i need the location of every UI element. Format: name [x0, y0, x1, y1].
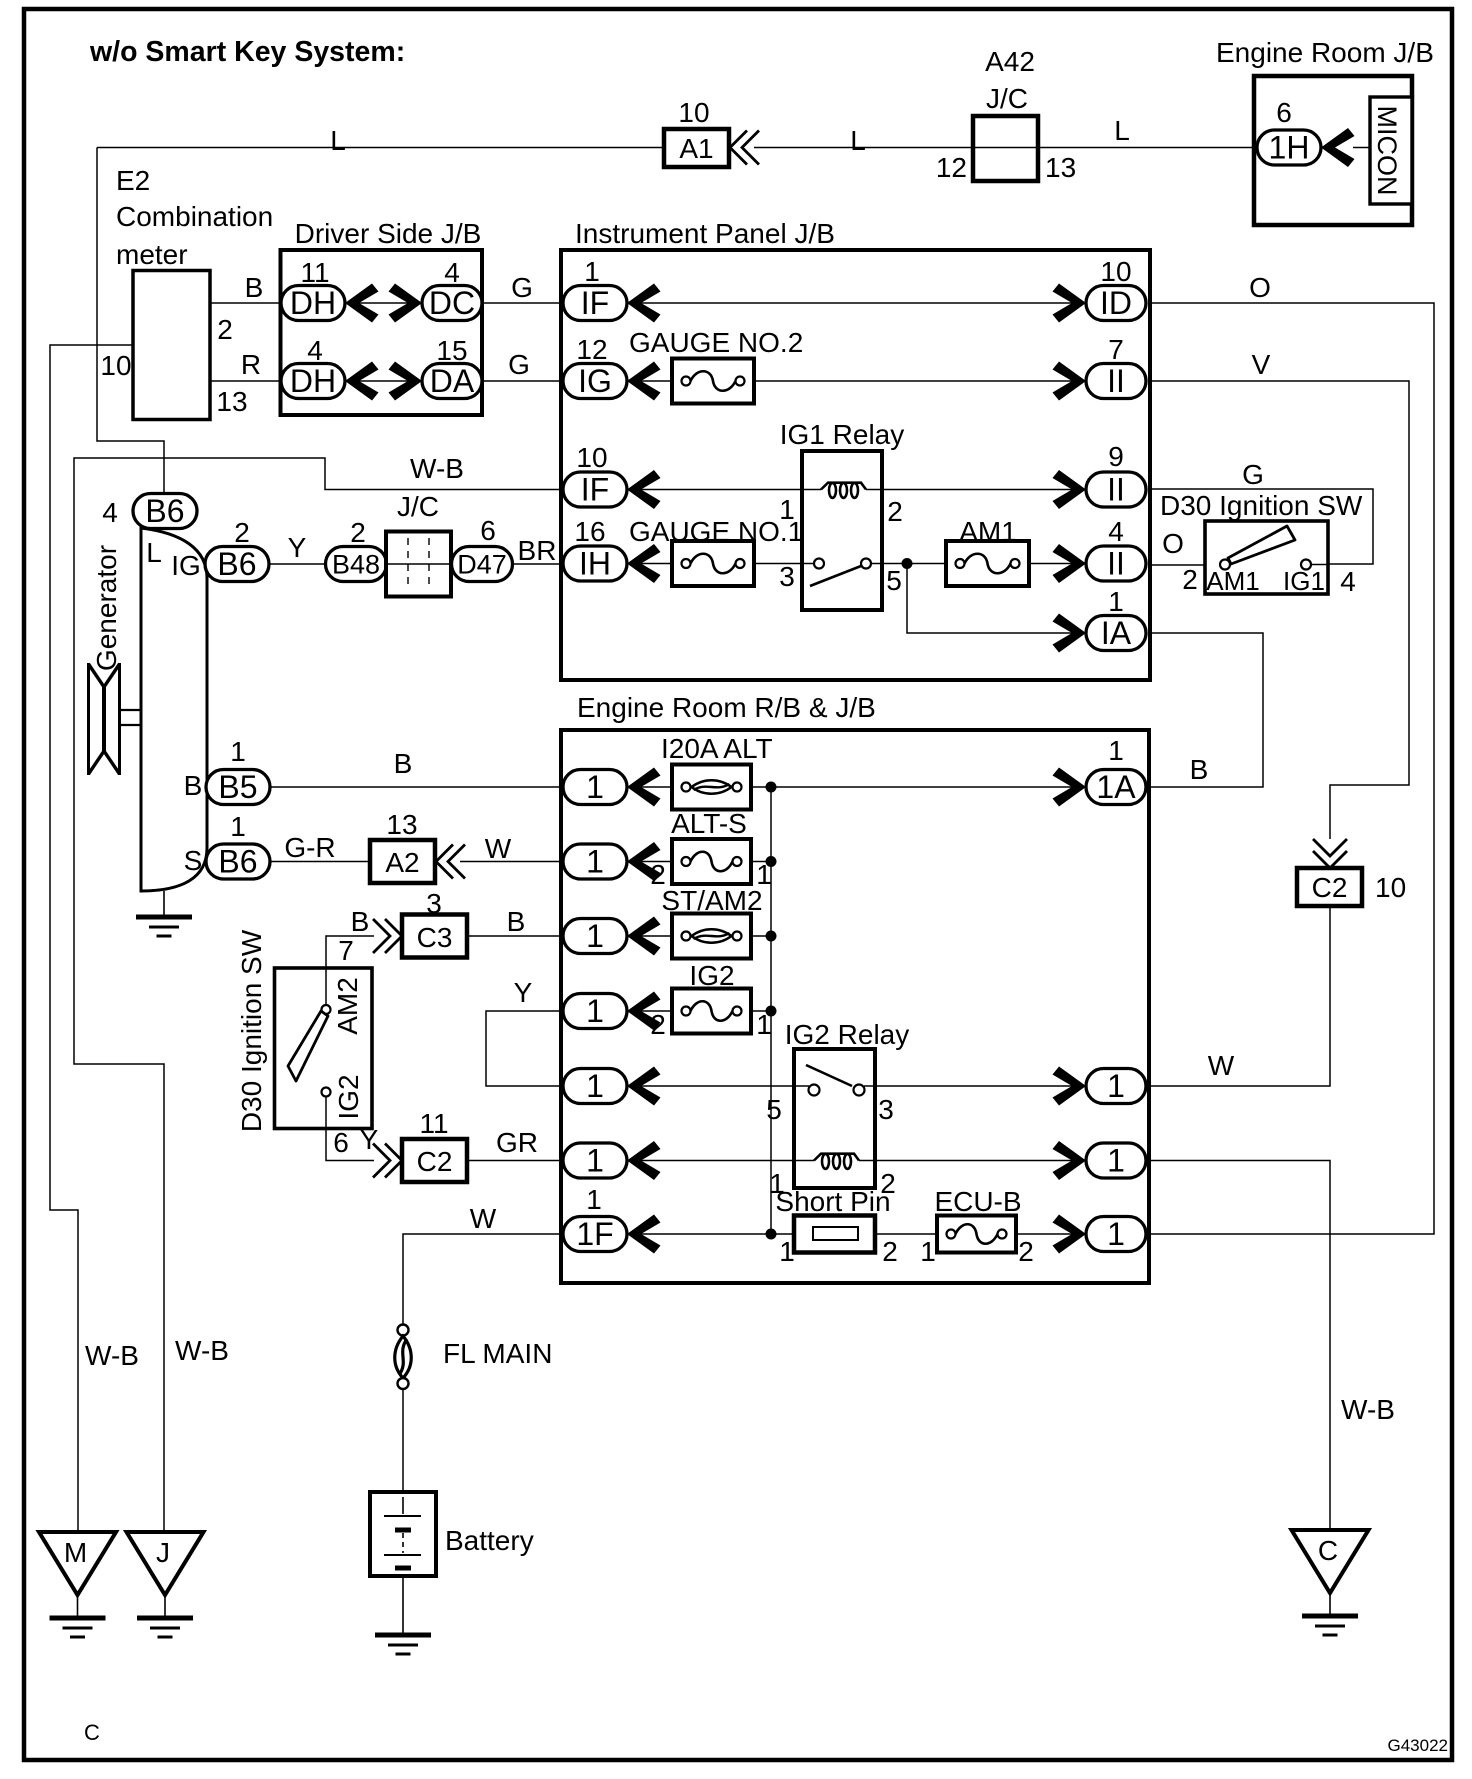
svg-text:3: 3: [426, 888, 442, 919]
svg-text:B: B: [245, 272, 264, 303]
svg-text:A2: A2: [385, 847, 419, 878]
svg-text:1: 1: [1107, 1143, 1125, 1179]
svg-text:R: R: [241, 349, 261, 380]
svg-text:ALT-S: ALT-S: [671, 808, 747, 839]
svg-text:IF: IF: [581, 472, 609, 508]
svg-text:2: 2: [882, 1236, 898, 1267]
svg-text:1: 1: [586, 844, 604, 880]
svg-text:B6: B6: [217, 546, 256, 582]
svg-text:W: W: [485, 833, 512, 864]
svg-text:5: 5: [886, 565, 902, 596]
svg-text:S: S: [184, 845, 203, 876]
svg-text:O: O: [1249, 272, 1271, 303]
svg-text:G43022: G43022: [1388, 1736, 1449, 1755]
svg-text:IA: IA: [1101, 615, 1132, 651]
svg-text:1: 1: [1108, 735, 1124, 766]
svg-text:B: B: [507, 906, 526, 937]
svg-text:1: 1: [779, 494, 795, 525]
svg-text:DH: DH: [290, 285, 336, 321]
svg-text:1: 1: [586, 1184, 602, 1215]
svg-text:L: L: [1114, 115, 1130, 146]
svg-text:B48: B48: [332, 549, 380, 579]
svg-text:MICON: MICON: [1372, 106, 1402, 196]
svg-text:1: 1: [1107, 1216, 1125, 1252]
svg-text:IG1: IG1: [1283, 566, 1325, 596]
svg-text:GAUGE NO.1: GAUGE NO.1: [629, 516, 803, 547]
svg-text:2: 2: [650, 1009, 666, 1040]
svg-text:11: 11: [300, 257, 329, 288]
svg-text:L: L: [146, 537, 162, 568]
svg-text:3: 3: [878, 1094, 894, 1125]
svg-text:2: 2: [350, 517, 366, 548]
svg-text:IG2: IG2: [689, 960, 734, 991]
svg-text:9: 9: [1108, 441, 1124, 472]
svg-text:DC: DC: [429, 285, 475, 321]
svg-text:Driver Side J/B: Driver Side J/B: [295, 218, 482, 249]
svg-text:AM1: AM1: [959, 516, 1017, 547]
svg-text:1: 1: [779, 1236, 795, 1267]
svg-text:Engine Room R/B & J/B: Engine Room R/B & J/B: [577, 692, 876, 723]
svg-text:L: L: [850, 125, 866, 156]
svg-text:Y: Y: [360, 1124, 379, 1155]
svg-text:BR: BR: [518, 535, 557, 566]
svg-text:10: 10: [678, 97, 709, 128]
svg-text:10: 10: [100, 350, 131, 381]
svg-text:IG: IG: [171, 550, 201, 581]
svg-text:1: 1: [586, 1143, 604, 1179]
svg-text:5: 5: [766, 1094, 782, 1125]
svg-text:10: 10: [576, 442, 607, 473]
svg-text:1: 1: [920, 1236, 936, 1267]
svg-text:1H: 1H: [1269, 130, 1310, 166]
svg-text:I20A ALT: I20A ALT: [661, 733, 773, 764]
svg-text:DH: DH: [290, 363, 336, 399]
svg-text:G-R: G-R: [284, 832, 335, 863]
svg-text:4: 4: [444, 257, 460, 288]
svg-text:2: 2: [887, 496, 903, 527]
svg-text:10: 10: [1375, 872, 1406, 903]
svg-text:Generator: Generator: [91, 545, 122, 671]
svg-text:C: C: [84, 1720, 100, 1745]
svg-text:1: 1: [1108, 586, 1124, 617]
svg-text:C2: C2: [417, 1146, 453, 1177]
svg-text:1: 1: [584, 256, 600, 287]
svg-text:A1: A1: [679, 133, 713, 164]
svg-text:W: W: [470, 1203, 497, 1234]
svg-text:AM2: AM2: [332, 977, 363, 1035]
svg-text:12: 12: [576, 334, 607, 365]
svg-text:6: 6: [480, 515, 496, 546]
svg-text:2: 2: [217, 314, 233, 345]
svg-text:C3: C3: [417, 922, 453, 953]
svg-text:1: 1: [1107, 1068, 1125, 1104]
svg-text:J/C: J/C: [397, 491, 439, 522]
svg-text:W-B: W-B: [410, 453, 464, 484]
svg-text:A42: A42: [985, 46, 1035, 77]
svg-text:D30 Ignition SW: D30 Ignition SW: [1160, 490, 1363, 521]
svg-text:1F: 1F: [576, 1216, 613, 1252]
svg-text:1: 1: [586, 769, 604, 805]
svg-text:3: 3: [779, 561, 795, 592]
svg-text:13: 13: [386, 809, 417, 840]
svg-text:4: 4: [102, 497, 118, 528]
svg-text:6: 6: [1276, 97, 1292, 128]
svg-text:7: 7: [338, 935, 354, 966]
svg-text:W: W: [1208, 1050, 1235, 1081]
svg-text:meter: meter: [116, 239, 188, 270]
svg-text:w/o Smart Key System:: w/o Smart Key System:: [89, 36, 405, 68]
svg-text:Y: Y: [288, 532, 307, 563]
svg-text:IG: IG: [578, 363, 612, 399]
svg-text:II: II: [1107, 363, 1125, 399]
svg-text:G: G: [1242, 459, 1264, 490]
svg-text:4: 4: [1340, 566, 1356, 597]
svg-text:C: C: [1318, 1535, 1338, 1566]
svg-text:Engine Room J/B: Engine Room J/B: [1216, 37, 1434, 68]
svg-text:IH: IH: [579, 546, 611, 582]
svg-text:FL MAIN: FL MAIN: [443, 1338, 552, 1369]
svg-text:IG2 Relay: IG2 Relay: [785, 1019, 910, 1050]
svg-text:2: 2: [234, 517, 250, 548]
svg-text:1: 1: [586, 993, 604, 1029]
svg-text:B6: B6: [145, 493, 184, 529]
svg-text:11: 11: [419, 1108, 448, 1139]
svg-text:AM1: AM1: [1206, 566, 1259, 596]
svg-text:Instrument Panel J/B: Instrument Panel J/B: [575, 218, 835, 249]
svg-text:Battery: Battery: [445, 1525, 534, 1556]
svg-text:ST/AM2: ST/AM2: [661, 885, 762, 916]
svg-text:B: B: [351, 906, 370, 937]
svg-text:ID: ID: [1100, 285, 1132, 321]
svg-text:15: 15: [436, 335, 467, 366]
svg-text:4: 4: [1108, 516, 1124, 547]
svg-text:12: 12: [936, 152, 967, 183]
svg-text:ECU-B: ECU-B: [934, 1186, 1021, 1217]
svg-text:L: L: [330, 125, 346, 156]
svg-text:B: B: [394, 748, 413, 779]
svg-text:16: 16: [574, 516, 605, 547]
svg-text:6: 6: [333, 1127, 349, 1158]
svg-text:IG2: IG2: [333, 1074, 364, 1119]
svg-text:1: 1: [586, 1068, 604, 1104]
svg-text:1A: 1A: [1096, 769, 1136, 805]
svg-text:7: 7: [1108, 334, 1124, 365]
svg-text:W-B: W-B: [175, 1335, 229, 1366]
svg-text:Short Pin: Short Pin: [775, 1186, 890, 1217]
svg-text:D47: D47: [457, 549, 507, 579]
svg-text:G: G: [511, 272, 533, 303]
svg-text:W-B: W-B: [1341, 1394, 1395, 1425]
svg-text:13: 13: [216, 386, 247, 417]
svg-text:II: II: [1107, 472, 1125, 508]
svg-text:GAUGE NO.2: GAUGE NO.2: [629, 327, 803, 358]
svg-text:2: 2: [1182, 564, 1198, 595]
svg-text:W-B: W-B: [85, 1340, 139, 1371]
svg-text:IG1 Relay: IG1 Relay: [780, 419, 905, 450]
svg-text:13: 13: [1045, 152, 1076, 183]
svg-text:C2: C2: [1312, 872, 1348, 903]
svg-text:DA: DA: [430, 363, 475, 399]
svg-text:B: B: [184, 770, 203, 801]
svg-text:10: 10: [1100, 256, 1131, 287]
svg-text:D30 Ignition SW: D30 Ignition SW: [236, 929, 267, 1132]
svg-text:M: M: [64, 1537, 87, 1568]
svg-text:1: 1: [586, 918, 604, 954]
svg-text:2: 2: [1018, 1236, 1034, 1267]
svg-text:II: II: [1107, 546, 1125, 582]
svg-text:O: O: [1162, 528, 1184, 559]
svg-text:IF: IF: [581, 285, 609, 321]
svg-text:B5: B5: [218, 769, 257, 805]
svg-text:J/C: J/C: [986, 83, 1028, 114]
svg-text:G: G: [508, 349, 530, 380]
svg-text:V: V: [1252, 349, 1271, 380]
svg-text:Y: Y: [514, 977, 533, 1008]
svg-text:1: 1: [230, 736, 246, 767]
svg-text:Combination: Combination: [116, 201, 273, 232]
svg-text:1: 1: [230, 811, 246, 842]
svg-text:J: J: [156, 1537, 170, 1568]
svg-text:B6: B6: [218, 844, 257, 880]
svg-text:GR: GR: [496, 1127, 538, 1158]
svg-text:B: B: [1190, 754, 1209, 785]
svg-text:4: 4: [307, 335, 323, 366]
svg-text:E2: E2: [116, 165, 150, 196]
